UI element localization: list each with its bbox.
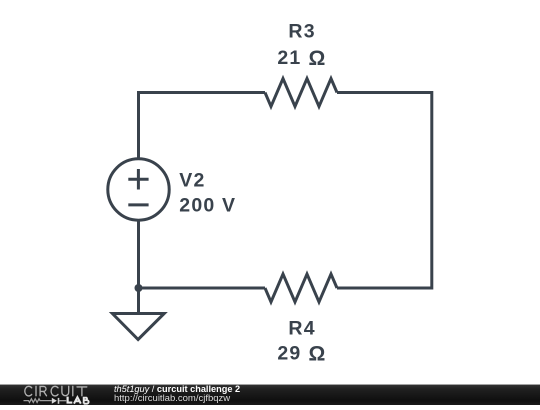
svg-text:R4: R4 [288,318,315,340]
svg-text:V2: V2 [179,169,205,191]
svg-text:http://circuitlab.com/cjfbqzw: http://circuitlab.com/cjfbqzw [114,393,230,404]
svg-text:29 Ω: 29 Ω [277,342,326,365]
svg-text:200 V: 200 V [179,194,236,216]
svg-text:R3: R3 [288,21,315,43]
svg-text:21 Ω: 21 Ω [277,47,326,70]
